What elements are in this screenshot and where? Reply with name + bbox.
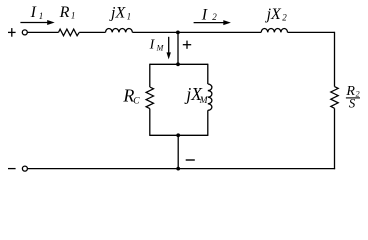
svg-text:1: 1 xyxy=(127,11,132,21)
svg-text:I: I xyxy=(30,4,37,21)
magnetizing box bottom wire xyxy=(150,134,208,136)
label IM xyxy=(149,38,165,53)
minus sign (magnetizing branch bottom) xyxy=(186,159,195,161)
plus sign (magnetizing branch) xyxy=(183,41,191,49)
terminal plus sign (top left) xyxy=(8,28,16,37)
svg-text:2: 2 xyxy=(282,12,287,22)
bottom terminal circle xyxy=(22,166,27,171)
resistor R2/S xyxy=(331,87,338,109)
current arrow I2 xyxy=(194,20,231,25)
label jXM xyxy=(184,84,208,106)
svg-text:R: R xyxy=(59,4,70,21)
center vertical wire (junction to box) xyxy=(177,32,179,64)
center vertical wire (box to bottom) xyxy=(177,135,179,168)
XM branch lower lead xyxy=(207,110,209,136)
svg-text:S: S xyxy=(349,96,356,111)
svg-text:M: M xyxy=(199,96,209,106)
magnetizing box top wire xyxy=(150,63,208,65)
junction node (bottom wire) xyxy=(176,167,180,171)
inductor jX2 xyxy=(261,29,287,33)
svg-text:M: M xyxy=(156,43,165,52)
svg-text:jX: jX xyxy=(265,6,282,23)
svg-text:jX: jX xyxy=(109,5,126,22)
label RC xyxy=(122,85,140,106)
wire jX1 to jX2 through junction xyxy=(132,31,261,33)
RC branch upper lead xyxy=(149,64,151,87)
wire top-left xyxy=(27,31,58,33)
label jX2 xyxy=(265,6,288,23)
junction node (box bottom) xyxy=(176,133,180,137)
inductor jXM xyxy=(208,84,212,110)
junction node (top) xyxy=(176,31,180,35)
svg-text:C: C xyxy=(133,97,140,107)
RC branch lower lead xyxy=(149,109,151,136)
current arrow IM xyxy=(167,37,171,60)
svg-text:1: 1 xyxy=(71,11,76,21)
resistor RC xyxy=(146,87,153,109)
bottom wire xyxy=(28,168,336,170)
inductor jX1 xyxy=(106,29,133,33)
wire R1 to jX1 xyxy=(79,31,105,33)
XM branch upper lead xyxy=(207,64,209,84)
input terminal circle (top) xyxy=(22,30,27,35)
svg-text:I: I xyxy=(201,7,208,24)
resistor R1 xyxy=(59,29,80,36)
right branch lower wire xyxy=(334,108,336,169)
svg-text:2: 2 xyxy=(212,12,217,22)
label I2 xyxy=(201,7,217,24)
current arrow I1 xyxy=(20,20,54,25)
svg-text:1: 1 xyxy=(39,11,44,21)
label I1 xyxy=(30,4,44,21)
terminal minus sign (bottom left) xyxy=(8,168,16,170)
junction node (box top) xyxy=(176,62,180,66)
label R1 xyxy=(59,4,76,21)
label jX1 xyxy=(109,5,131,22)
svg-text:2: 2 xyxy=(356,89,360,98)
right branch upper wire xyxy=(334,32,336,87)
wire jX2 to top-right corner xyxy=(288,31,335,33)
label R2 over S (fraction) xyxy=(345,84,360,111)
svg-text:I: I xyxy=(149,38,156,53)
